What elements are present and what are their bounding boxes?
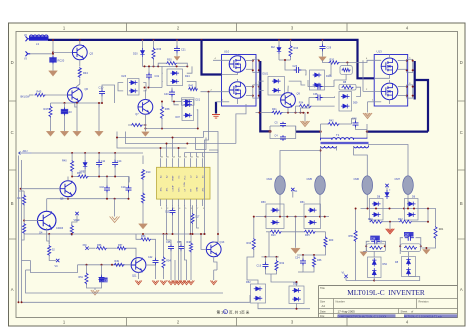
svg-text:R30: R30 [167,59,172,62]
svg-text:C35: C35 [166,241,171,244]
net flag VH1 [291,188,298,198]
resistor R40a [62,153,74,177]
pin 2 [201,89,230,92]
capacitor C40 [352,117,368,129]
svg-text:CM4: CM4 [267,177,273,181]
wire [143,57,189,67]
svg-text:C20: C20 [405,235,410,237]
svg-text:页, 共 1页 米: 页, 共 1页 米 [229,309,250,314]
wire [142,40,144,49]
wire [320,146,322,176]
wire [172,215,174,235]
wire [361,208,431,210]
svg-text:R36: R36 [157,48,162,51]
svg-text:13: 13 [179,157,181,159]
resistor R40 [188,85,198,91]
wire [98,102,100,131]
svg-text:C38: C38 [313,93,318,96]
wire [47,198,130,200]
thick primary wire [319,130,428,132]
svg-text:ADJ: ADJ [23,149,29,153]
svg-text:1IN-: 1IN- [166,187,168,191]
svg-text:R34: R34 [247,242,252,245]
wire [50,118,52,132]
svg-text:R54: R54 [166,260,171,263]
svg-text:VCC: VCC [184,175,186,180]
resistor R43 [78,67,88,78]
wire [197,110,199,130]
resistor R35 [304,230,316,237]
diode D4 [167,69,190,86]
svg-text:D106: D106 [326,75,332,78]
svg-text:R56: R56 [97,244,102,247]
wire [215,102,217,114]
diode D10 [263,73,285,96]
pin pad [398,83,414,98]
svg-text:C40: C40 [164,93,169,96]
svg-text:R36: R36 [317,259,322,262]
resistor R53 [136,234,156,255]
wire [354,146,368,176]
wire [46,94,68,96]
wire [144,90,146,99]
wire [422,209,436,249]
capacitor C36 [370,236,380,245]
wire [256,216,330,218]
transistor Q11 [131,258,146,278]
ground [139,224,148,229]
svg-text:C34: C34 [295,257,300,260]
transistor Q6 [67,87,88,102]
connector CM4 [267,176,286,195]
wire [31,261,78,273]
thick drain bus U13 [415,61,428,132]
diode D07 [176,100,194,121]
diode D50 [261,201,284,229]
ground [60,131,68,136]
svg-text:R41: R41 [272,108,277,111]
svg-text:D: D [460,60,463,65]
wire [52,39,54,57]
svg-text:D24: D24 [185,75,190,78]
wire [24,220,39,222]
svg-text:D21: D21 [196,99,201,102]
wire [374,277,420,281]
diode D52 [246,281,266,303]
net flag VREF [72,212,81,225]
svg-text:D: D [11,60,14,65]
wire [200,233,206,249]
pin 2 [363,89,381,91]
wire [256,107,306,113]
title text MLT019L-C INVENTER [347,288,425,297]
wire [185,153,203,158]
wire [305,63,331,76]
svg-text:Title: Title [320,286,325,290]
svg-text:C11: C11 [101,160,106,163]
ground [291,248,300,253]
ground [142,132,150,137]
svg-text:R53: R53 [141,235,146,238]
svg-text:4: 4 [179,208,180,210]
resistor R54 [162,234,171,279]
pin 1 [216,100,229,102]
svg-text:A4: A4 [322,304,326,308]
resistor R21 [434,226,444,239]
junction [142,39,203,41]
capacitor C43 [61,103,72,116]
svg-text:R40: R40 [189,85,194,88]
svg-text:5: 5 [185,208,186,210]
mosfet Q-U13a [381,58,398,75]
svg-text:D54: D54 [383,263,388,266]
svg-text:CM5: CM5 [307,177,313,181]
wire [296,98,310,114]
thick wire capacitor bank [269,130,321,133]
pin pad [398,57,414,72]
wire [374,251,408,257]
svg-text:Date:: Date: [320,310,326,314]
svg-text:C13: C13 [257,265,262,268]
wire [196,138,207,150]
svg-text:Number: Number [336,299,345,303]
diode D54 [368,257,388,278]
svg-text:R47: R47 [44,107,49,111]
resistor C17 [191,205,200,234]
transistor Q3 [72,45,93,60]
connector CM5 [307,176,326,195]
wire [261,232,279,258]
ground [174,53,180,61]
wire [142,180,144,193]
svg-text:17-Aug-2005: 17-Aug-2005 [338,310,356,314]
wire [247,250,258,284]
wire [295,217,297,248]
capacitor C37 [308,80,334,90]
wire [142,156,144,165]
ground [300,113,309,127]
svg-text:X30: X30 [83,245,88,247]
wire [209,150,218,242]
wire [383,208,430,223]
capacitor C26 [285,65,306,73]
resistor R42 [321,119,352,125]
mosfet Q-U10b [229,82,246,99]
resistor R38 [160,101,170,119]
wire [29,38,32,40]
wire [266,265,315,274]
svg-text:16: 16 [161,157,163,159]
capacitor C15 [165,205,176,215]
resistor R22 [398,218,412,223]
ground row [135,242,217,285]
svg-text:R55: R55 [349,235,354,238]
svg-text:C31: C31 [104,280,109,283]
resistor R33 [289,40,299,60]
svg-text:VC: VC [55,265,59,268]
svg-text:CM6: CM6 [354,177,360,181]
ground [423,247,431,254]
wire [64,115,66,131]
wire [369,145,409,176]
svg-text:R21: R21 [439,228,444,231]
mosfet module U13 [374,50,408,107]
svg-text:A: A [460,287,463,292]
svg-text:C21: C21 [181,49,186,52]
svg-text:R43: R43 [83,71,88,75]
transistor Q7 [135,100,153,117]
capacitor C33 [144,65,163,88]
mosfet Q-U10a [229,56,246,73]
svg-text:R22: R22 [398,218,403,221]
ground [319,51,327,62]
wire [279,59,291,65]
capacitor C20 [404,232,414,241]
diode D30 [310,70,333,90]
resistor R49 [114,260,125,266]
svg-text:C15: C15 [165,211,170,214]
resistor R44 [17,191,26,206]
pin 4 [340,58,382,64]
resistor R52 [48,245,56,256]
net label BKLOW [21,95,34,99]
svg-text:R19: R19 [378,242,383,244]
wire [214,257,217,270]
capacitor C29 [320,40,332,52]
diode VD20 [133,48,145,57]
resistor R10 [270,230,282,237]
svg-text:U5A: U5A [183,182,186,187]
wire [20,188,60,190]
capacitor C5 [275,122,287,128]
bottom bus wire 2 [18,301,251,303]
wire [22,261,31,271]
pin 1 [368,100,382,102]
resistor R30b [141,193,144,224]
junction [217,233,219,235]
resistor R34 [247,216,256,250]
wire [71,152,143,154]
capacitor RC20 [49,56,64,65]
ground [91,290,99,295]
svg-text:R42: R42 [329,119,334,122]
svg-text:DTC: DTC [178,187,180,192]
wire [49,233,73,245]
svg-text:D20: D20 [133,53,138,56]
svg-text:Q6: Q6 [85,87,89,91]
wire [249,295,251,302]
svg-text:11: 11 [191,157,193,159]
diode D03 [122,75,140,95]
svg-text:Q7: Q7 [135,113,139,116]
resistor R34h [296,102,335,108]
diode VREF [80,153,88,177]
wire [203,132,219,153]
svg-text:MLT019L-C INVENTER: MLT019L-C INVENTER [347,288,425,297]
ground [363,113,372,119]
svg-text:R10: R10 [271,234,276,237]
diode D53 [289,283,304,304]
wire [258,303,310,310]
svg-text:12: 12 [185,157,187,159]
svg-text:D101: D101 [263,73,269,76]
svg-text:RC20: RC20 [58,59,65,63]
net label VL [342,271,348,281]
wire [203,150,205,235]
diode D51 [300,201,321,229]
svg-text:COMP: COMP [172,185,174,192]
bottom bus wire [26,270,224,293]
svg-text:VREF: VREF [172,175,174,181]
ground [49,71,58,76]
svg-text:第 1: 第 1 [217,309,224,314]
svg-text:D50: D50 [261,201,266,204]
svg-text:3: 3 [173,208,174,210]
wire [49,256,56,261]
wire [334,63,361,97]
resistor R31 [158,59,187,67]
title block field labels [320,286,457,318]
wire [118,83,146,91]
svg-text:R40: R40 [368,218,373,221]
mosfet module U10 [222,50,257,107]
IC U5 PWM controller [157,157,211,210]
pin pad [246,83,260,98]
diode D2 [271,40,281,60]
diode D21 [182,98,201,105]
wire [79,39,81,45]
svg-text:R20: R20 [329,239,334,242]
wire [87,282,102,291]
connector pin V1 [24,35,30,41]
wire [52,63,54,70]
svg-text:R33: R33 [294,47,299,50]
capacitor C16 [100,177,111,199]
wire [237,55,239,105]
control bus wire [24,233,206,235]
thick drain bus U10 [260,61,270,131]
mosfet Q-U13b [381,83,398,100]
wire [321,124,368,140]
wire [30,53,53,55]
capacitor C41 [177,241,184,256]
wire [51,96,104,104]
svg-text:C42: C42 [148,256,153,259]
wire [287,86,289,93]
capacitor C30 [164,88,182,102]
svg-text:C26: C26 [293,65,298,68]
wire [67,177,69,199]
svg-text:7: 7 [197,208,198,210]
transistor Q5 [60,181,76,201]
svg-text:A: A [11,287,14,292]
pin pad [246,57,260,72]
svg-text:D07: D07 [176,116,181,119]
transistor Q4 [37,211,63,234]
wire [236,104,246,144]
connector CM7 [395,176,414,195]
resistor R56 [96,244,107,250]
resistor R33b [312,255,322,268]
svg-text:R40: R40 [62,160,67,163]
wire [280,146,337,176]
wire [32,152,73,154]
resistor R50 [77,172,89,178]
svg-text:Size: Size [320,299,326,303]
svg-text:U13: U13 [377,50,383,54]
wire [144,119,197,131]
svg-text:C10: C10 [121,186,126,189]
wire [362,60,364,91]
wire [271,272,303,286]
svg-text:B: B [11,201,14,206]
svg-text:D23: D23 [122,75,127,78]
svg-text:T1: T1 [336,133,340,137]
svg-text:R50: R50 [77,172,82,175]
wire [270,126,296,139]
wire [355,208,357,281]
wire [367,194,408,208]
svg-text:C: C [460,130,463,135]
svg-text:VL: VL [342,271,346,275]
ground [360,251,367,256]
wire [367,102,369,113]
resistor R20 [324,232,334,248]
svg-text:BKLOW: BKLOW [21,96,31,99]
resistor R32 [275,257,285,271]
capacitor C21 [174,40,186,54]
resistor R57 [117,244,127,250]
wire [297,247,326,256]
capacitor C31 [99,265,110,283]
wire [53,51,72,53]
resistor R47 [44,103,53,118]
resistor R45 [35,90,46,97]
wire [173,101,179,105]
wire [47,228,50,245]
inner border frame [16,32,458,318]
svg-text:R35: R35 [305,234,310,237]
svg-text:15: 15 [167,157,169,159]
svg-text:R51: R51 [79,276,84,279]
resistor R19 [365,242,386,252]
resistor R37 [128,123,145,126]
diode VD31 [385,184,391,199]
svg-text:C36: C36 [371,238,376,240]
resistor R36 [152,40,162,66]
svg-text:1: 1 [161,208,162,210]
wire [346,278,375,282]
resistor R8 [339,81,356,90]
resistor R12 [399,244,422,252]
svg-text:D52: D52 [246,281,251,284]
diode D55 [395,257,416,277]
resistor R41 [272,108,283,114]
ground [386,222,395,234]
svg-text:R57: R57 [118,244,123,247]
wire [280,194,320,216]
svg-text:R45: R45 [37,90,42,94]
wire [75,102,77,107]
svg-text:C16: C16 [100,186,105,189]
wire [389,55,391,105]
svg-text:Q11: Q11 [132,275,137,278]
svg-text:OC: OC [178,175,180,179]
wire [266,231,326,233]
svg-text:C29: C29 [327,47,332,50]
wire [400,238,421,254]
svg-text:Revision: Revision [419,299,430,303]
